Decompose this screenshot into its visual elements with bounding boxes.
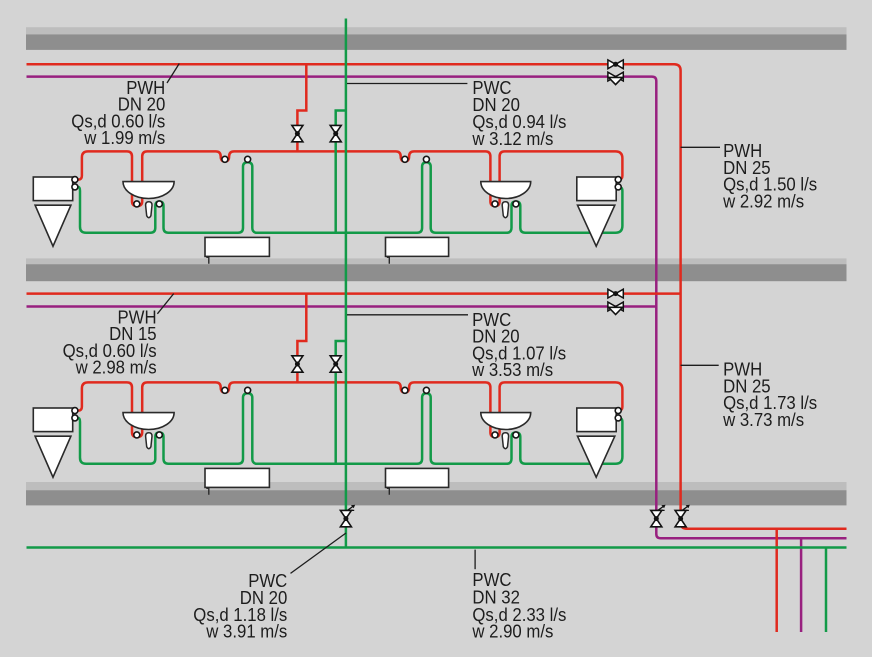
label: PWH DN20 floor-1	[71, 78, 165, 148]
valve: PWC floor-1 branch shut-off	[330, 125, 341, 141]
fixture: shower tray left floor-2	[205, 468, 269, 487]
fixture: WC bowl right floor-1	[578, 205, 615, 246]
label: PWC DN20 floor-1	[471, 78, 566, 149]
svg-text:w 3.12 m/s: w 3.12 m/s	[471, 129, 553, 149]
fixture: WC bowl left floor-2	[35, 436, 71, 477]
valve: PWH-C riser drain valve	[651, 505, 666, 527]
node: shower-left connections floor-1	[222, 156, 251, 162]
trap: washbasin left floor-2	[146, 433, 152, 449]
wire: PWC basement main	[27, 546, 847, 549]
fixture: washbasin right floor-1	[481, 182, 531, 199]
wire: PWC main riser	[345, 19, 348, 548]
leader: PWH floor-2 left	[157, 294, 173, 314]
leader: PWH riser floor-1 right	[681, 146, 720, 148]
valve: PWC floor-2 branch shut-off	[330, 356, 341, 372]
node: WC-left connections floor-1	[72, 177, 78, 190]
wire: PWH-C circulation floor-2 ceiling	[27, 305, 657, 308]
wire: PWH-C basement drop	[800, 538, 803, 632]
node: basin-right connections floor-1	[492, 201, 519, 207]
trap: washbasin left floor-1	[146, 202, 152, 218]
node: basin-left connections floor-1	[134, 201, 163, 207]
leader: PWC floor-2 center	[347, 314, 468, 316]
node: WC-left connections floor-2	[72, 408, 78, 421]
trap: washbasin right floor-1	[502, 202, 508, 218]
leader: PWC floor-1 center	[347, 83, 467, 85]
fixture: shower tray right floor-1	[386, 237, 449, 256]
node: basin-left connections floor-2	[134, 432, 163, 438]
valve: PWC riser drain valve	[340, 505, 355, 527]
wire: PWH-C circulation floor-1 ceiling + riser + basement main	[27, 77, 847, 539]
label: PWC riser	[193, 571, 287, 641]
valve: PWH floor-1 ceiling shut-off	[608, 60, 623, 69]
valve: PWH floor-2 branch shut-off	[292, 356, 303, 372]
fixture: WC bowl right floor-2	[578, 436, 615, 477]
fixture: WC cistern right floor-2	[577, 408, 616, 432]
label: PWC DN20 floor-2	[471, 310, 566, 380]
svg-text:w 2.98 m/s: w 2.98 m/s	[75, 357, 157, 377]
svg-text:w 3.53 m/s: w 3.53 m/s	[471, 360, 553, 380]
fixture: shower tray left floor-1	[205, 237, 269, 256]
svg-text:w 3.73 m/s: w 3.73 m/s	[722, 410, 804, 430]
node: basin-right connections floor-2	[492, 432, 519, 438]
wire: PWH basement drop	[775, 529, 778, 632]
node: WC-right connections floor-1	[615, 177, 621, 190]
node: shower-right connections floor-1	[402, 156, 430, 162]
leader: PWC riser bottom	[291, 533, 347, 573]
fixture: WC cistern left floor-1	[33, 177, 72, 201]
floor slab 2	[26, 258, 847, 281]
floor slab 1	[26, 27, 847, 50]
svg-text:w 2.92 m/s: w 2.92 m/s	[722, 191, 804, 211]
valve: PWH riser drain valve	[675, 505, 690, 527]
valve: PWH floor-2 ceiling shut-off	[608, 289, 623, 298]
wire: PWH floor-1 loop	[76, 151, 622, 206]
label: PWH DN25 riser lower	[722, 360, 817, 430]
wire: PWC basement drop	[825, 548, 828, 633]
wire: PWC floor-1 branch from riser	[336, 111, 346, 234]
wire: PWC floor-1 loop	[76, 162, 622, 233]
svg-text:w 2.90 m/s: w 2.90 m/s	[471, 622, 553, 642]
wire: PWC floor-2 loop	[76, 393, 622, 464]
fixture: washbasin right floor-2	[481, 413, 531, 430]
fixture: WC cistern left floor-2	[33, 408, 72, 432]
floor slab 3	[26, 482, 847, 505]
svg-text:w 3.91 m/s: w 3.91 m/s	[205, 622, 287, 642]
fixture: WC bowl left floor-1	[35, 205, 71, 246]
node: shower-left connections floor-2	[222, 387, 251, 393]
fixture: washbasin left floor-1	[123, 182, 174, 199]
fixture: shower tray right floor-2	[386, 468, 449, 487]
wire: PWH floor-2 loop	[76, 382, 622, 437]
svg-text:w 1.99 m/s: w 1.99 m/s	[83, 128, 165, 148]
leader: PWC basement main	[474, 550, 476, 570]
node: WC-right connections floor-2	[615, 408, 621, 421]
wire: PWH floor-2 ceiling distribution	[27, 292, 681, 295]
valve: PWH floor-1 branch shut-off	[292, 125, 303, 141]
fixture: washbasin left floor-2	[123, 413, 174, 430]
label: PWC DN32 basement	[471, 570, 566, 642]
label: PWH DN25 riser upper	[722, 141, 817, 211]
valve: PWH-C floor-2 ceiling valve	[608, 302, 623, 314]
wire: PWH floor-2 riser drop	[297, 294, 306, 384]
trap: washbasin right floor-2	[502, 433, 508, 449]
node: shower-right connections floor-2	[402, 387, 430, 393]
valve: PWH-C floor-1 ceiling valve	[608, 72, 623, 84]
leader: PWH floor-1 left	[167, 64, 179, 84]
wire: PWC floor-2 branch from riser	[336, 341, 346, 465]
wire: PWH floor-1 ceiling distribution + riser + basement main	[27, 64, 847, 529]
fixture: WC cistern right floor-1	[577, 177, 616, 201]
wire: PWH floor-1 riser drop	[297, 64, 306, 152]
leader: PWH riser floor-2 right	[681, 364, 719, 366]
label: PWH DN15 floor-2	[63, 307, 157, 377]
